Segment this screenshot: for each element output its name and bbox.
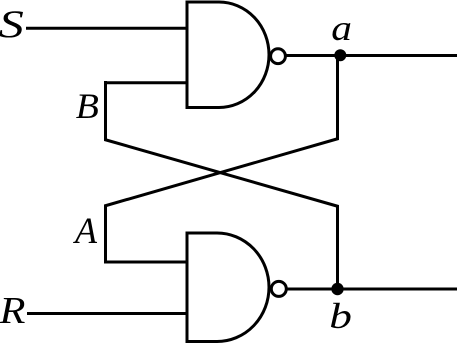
svg-text:S: S <box>0 2 24 45</box>
wire diagonal a to A <box>105 139 339 207</box>
node a junction dot <box>334 49 346 61</box>
svg-text:B: B <box>76 86 99 126</box>
wire a feedback vertical <box>336 56 339 141</box>
svg-text:a: a <box>331 8 352 48</box>
wire R input <box>27 312 188 315</box>
wire B vertical <box>104 81 107 141</box>
wire U2 output <box>288 288 457 291</box>
NAND gate U2 body <box>187 233 269 342</box>
NAND gate U2 bubble <box>271 281 286 296</box>
wire diagonal b to B <box>105 140 339 207</box>
wire U1 output <box>287 54 457 57</box>
node b junction dot <box>331 283 343 295</box>
wire A horizontal <box>104 261 188 264</box>
svg-text:A: A <box>72 209 97 251</box>
wire S input <box>26 27 188 30</box>
NAND gate U1 body <box>187 2 269 108</box>
svg-text:R: R <box>0 289 25 331</box>
wire A vertical <box>104 205 107 264</box>
wire b feedback vertical <box>336 205 339 290</box>
NAND gate U1 bubble <box>271 49 286 64</box>
svg-text:b: b <box>329 296 352 336</box>
wire B horizontal <box>104 81 188 84</box>
